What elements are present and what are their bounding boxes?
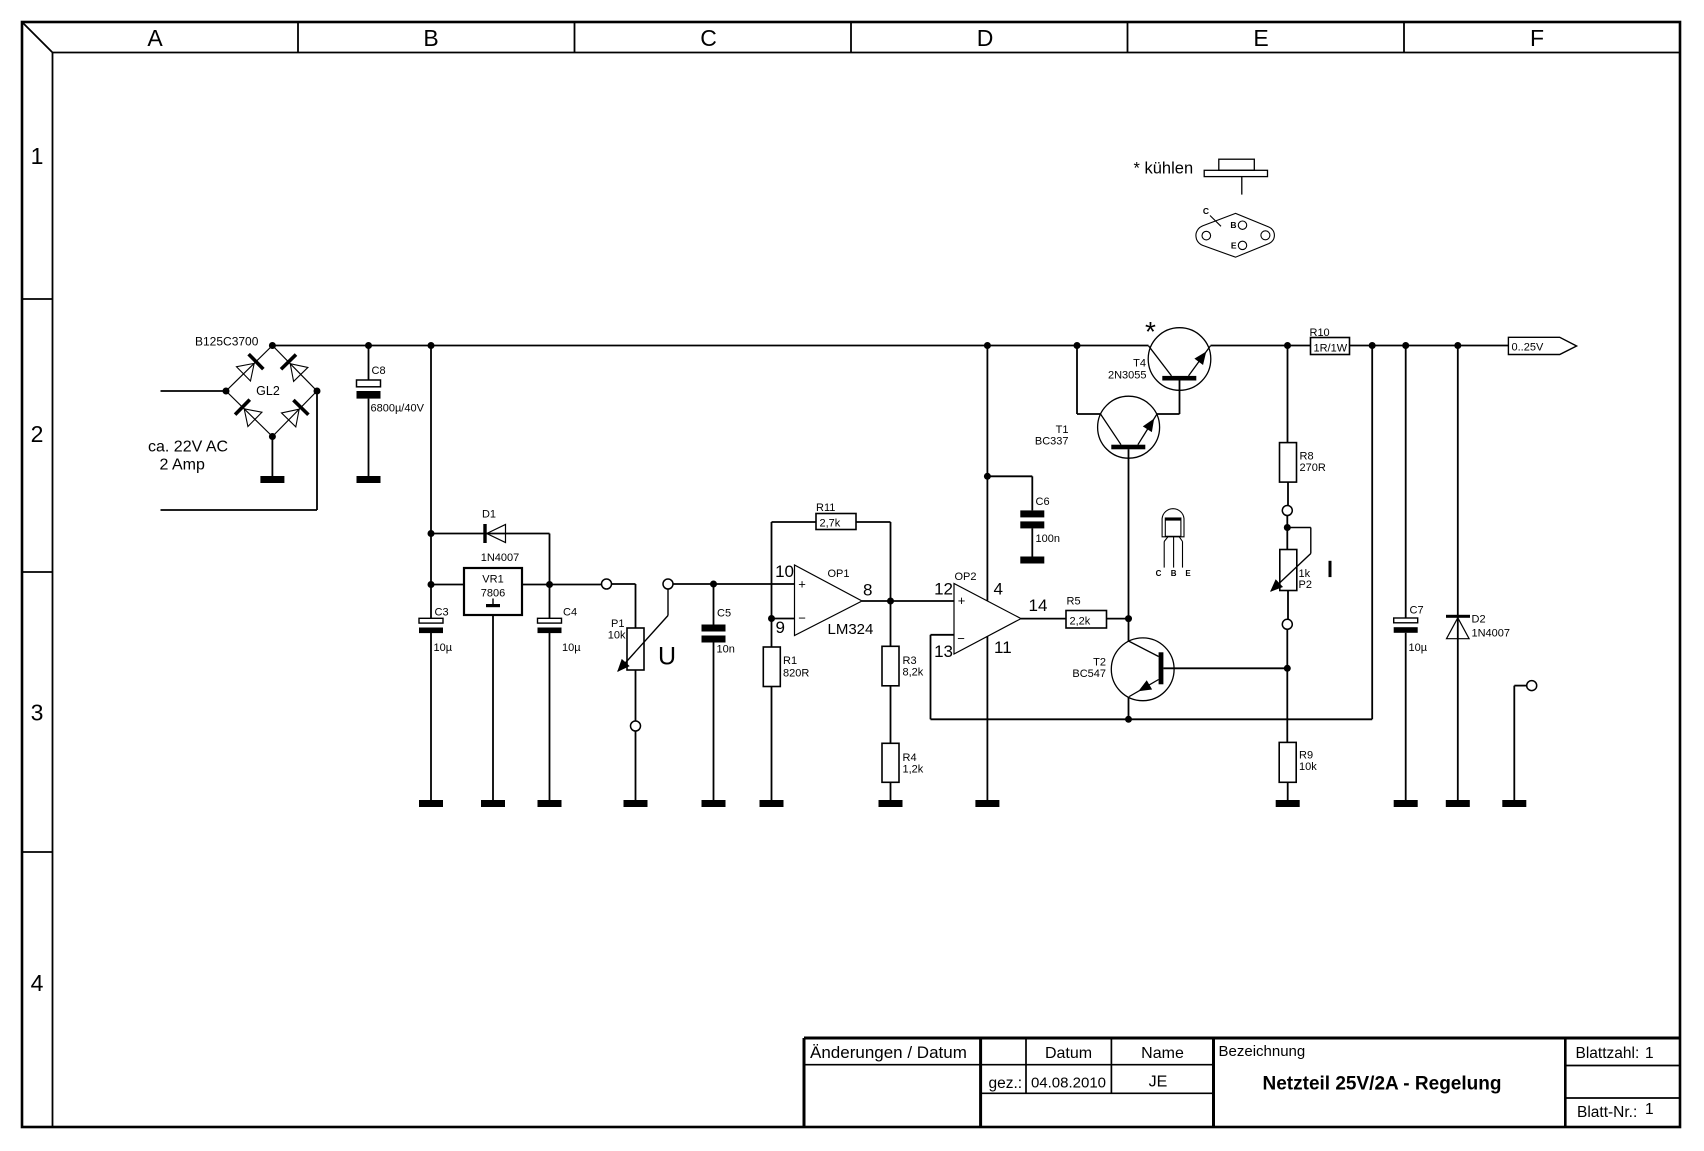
svg-text:*: * [1145, 316, 1156, 347]
svg-text:10k: 10k [1299, 761, 1317, 773]
wire rail to D2 and ground [1457, 346, 1459, 801]
svg-text:C7: C7 [1410, 605, 1424, 617]
svg-text:D1: D1 [482, 509, 496, 521]
wire P1 wiper vertical [667, 589, 669, 616]
wire VR1 input [431, 584, 464, 586]
ground bridge [260, 476, 284, 483]
wire rail to C8 [368, 346, 370, 381]
VR1 ground tab symbol [492, 599, 494, 605]
capacitor C8 [357, 380, 381, 387]
frame row tick [22, 571, 53, 573]
svg-text:C6: C6 [1036, 496, 1050, 508]
frame column tick [1127, 22, 1129, 53]
TO-3 pin E [1238, 241, 1246, 249]
svg-text:Änderungen / Datum: Änderungen / Datum [810, 1043, 967, 1062]
svg-text:R8: R8 [1300, 451, 1314, 463]
resistor R8 [1280, 443, 1297, 483]
svg-text:VR1: VR1 [482, 574, 503, 586]
bridge diode D-BL bar [235, 400, 250, 415]
wire rail T4 to R10 [1211, 345, 1311, 347]
junction rail/R8 [1284, 342, 1291, 349]
svg-text:4: 4 [994, 580, 1003, 599]
heatsink side view pin [1241, 177, 1243, 195]
svg-text:+: + [958, 593, 966, 608]
TO-92 leg B [1173, 537, 1175, 568]
bridge diode D-TR triangle [290, 364, 308, 382]
title block v-line 1 [979, 1038, 982, 1127]
svg-text:T1: T1 [1056, 424, 1069, 436]
junction R5/T1 base/T2 collector [1125, 615, 1132, 622]
svg-text:E: E [1185, 569, 1191, 578]
junction rail/D2 [1454, 342, 1461, 349]
svg-text:Blatt-Nr.:: Blatt-Nr.: [1577, 1104, 1637, 1121]
T1 emitter diagonal [1138, 414, 1157, 445]
title block header row line [804, 1064, 1214, 1066]
T4 base bar [1162, 376, 1196, 381]
ground OP2 pin11 [975, 800, 999, 807]
transistor T1 circle [1098, 396, 1160, 458]
bridge node bottom [269, 433, 276, 440]
TO-92 package drawing [1162, 509, 1184, 537]
bridge node left [223, 388, 230, 395]
wire AC input upper [161, 390, 227, 392]
wire rail to C7 [1405, 346, 1407, 619]
title block datum column line [1110, 1038, 1112, 1093]
wire P2 to R9 [1286, 629, 1288, 742]
wire R1 to ground [771, 687, 773, 801]
svg-text:D: D [977, 25, 994, 51]
ground C3 [419, 800, 443, 807]
svg-text:GL2: GL2 [256, 384, 280, 398]
resistor R10 [1311, 338, 1350, 355]
TO-3 mounting hole right [1261, 231, 1270, 240]
resistor R9 [1279, 742, 1296, 782]
wire C8 to ground [368, 399, 370, 476]
ground P1 [624, 800, 648, 807]
junction OP1 pin9 / R1 / R11 [768, 615, 775, 622]
T2 emitter diagonal [1129, 680, 1158, 697]
wire to R1 [771, 619, 773, 648]
bridge diode D-TR bar [281, 355, 296, 370]
wire C6 top lead [1031, 476, 1033, 510]
junction rail/C8 [365, 342, 372, 349]
svg-text:6800µ/40V: 6800µ/40V [371, 403, 425, 415]
junction rail/C7 [1402, 342, 1409, 349]
svg-text:C8: C8 [372, 365, 386, 377]
svg-text:270R: 270R [1300, 462, 1326, 474]
svg-text:B: B [1171, 569, 1177, 578]
svg-text:C4: C4 [563, 607, 577, 619]
capacitor C4 [538, 618, 562, 623]
ground C6 [1020, 557, 1044, 564]
wire to R11 [772, 521, 817, 523]
TO-3 package bottom view outline [1196, 213, 1275, 257]
wire VR1 gnd lead [492, 615, 494, 800]
svg-text:B125C3700: B125C3700 [195, 335, 259, 349]
T1 collector diagonal [1101, 414, 1122, 445]
wire VR1 output [522, 584, 602, 586]
svg-text:T2: T2 [1093, 657, 1106, 669]
wire D1 down to VR1 output [549, 534, 551, 585]
ground output terminal [1502, 800, 1526, 807]
title block v-line 2 [1212, 1038, 1215, 1127]
svg-text:OP2: OP2 [955, 571, 977, 583]
svg-text:1: 1 [1645, 1045, 1654, 1062]
bridge diode D-TL triangle [236, 363, 254, 381]
capacitor C6 [1020, 510, 1044, 517]
wire OP2 out to R5 [1021, 618, 1066, 620]
op-amp OP2 triangle [954, 584, 1021, 655]
svg-text:14: 14 [1029, 596, 1048, 615]
title block outer [804, 1037, 1680, 1040]
frame row tick [22, 298, 53, 300]
wire T2 base to P2/R9 [1163, 667, 1287, 669]
svg-text:1: 1 [1645, 1101, 1654, 1118]
wire R9 to ground [1287, 782, 1289, 800]
junction P2 wiper [1284, 524, 1291, 531]
label I [1329, 561, 1332, 577]
svg-text:R5: R5 [1067, 596, 1081, 608]
svg-text:8,2k: 8,2k [903, 667, 924, 679]
terminal output minus [1527, 681, 1537, 691]
svg-text:Bezeichnung: Bezeichnung [1219, 1043, 1306, 1060]
TO-92 leg E [1182, 542, 1184, 568]
svg-text:04.08.2010: 04.08.2010 [1031, 1075, 1106, 1092]
junction C5 [710, 581, 717, 588]
wire feedback bottom [931, 718, 1373, 720]
wire rail R10 to output [1350, 345, 1509, 347]
svg-text:C3: C3 [435, 607, 449, 619]
svg-text:A: A [147, 25, 163, 51]
frame column tick [1403, 22, 1405, 53]
wire main rail left of T4 [272, 345, 1148, 347]
bridge diode D-BR bar [293, 400, 308, 415]
wire R5 to T2 collector net [1107, 618, 1129, 620]
wire R11 down to OP1 out [890, 522, 892, 602]
svg-text:−: − [798, 610, 806, 625]
svg-text:1N4007: 1N4007 [1472, 628, 1511, 640]
bridge diode D-BR triangle [282, 409, 300, 427]
junction VR1 input [428, 581, 435, 588]
svg-text:3: 3 [31, 700, 44, 726]
wire wiper jog down [1310, 528, 1312, 554]
ground C7 [1394, 800, 1418, 807]
TO-3 mounting hole left [1202, 231, 1211, 240]
svg-text:Blattzahl:: Blattzahl: [1576, 1045, 1640, 1062]
title block blattzahl row line [1565, 1065, 1680, 1067]
wire R11 right [856, 521, 891, 523]
svg-text:ca. 22V AC: ca. 22V AC [148, 438, 228, 455]
svg-text:E: E [1253, 25, 1268, 51]
svg-text:C: C [1156, 569, 1162, 578]
svg-text:* kühlen: * kühlen [1134, 160, 1194, 178]
svg-text:2,2k: 2,2k [1070, 616, 1091, 628]
svg-text:E: E [1231, 240, 1237, 250]
T1 base bar [1111, 445, 1145, 450]
junction rail/VR1 branch [428, 342, 435, 349]
svg-text:820R: 820R [783, 668, 809, 680]
svg-text:2: 2 [31, 421, 44, 447]
output flag 0..25V [1508, 337, 1576, 354]
svg-text:Name: Name [1141, 1045, 1184, 1062]
svg-text:8: 8 [863, 581, 872, 600]
svg-text:LM324: LM324 [828, 621, 874, 638]
diode D2 triangle [1447, 618, 1470, 639]
wire P1 top lead [635, 584, 637, 628]
capacitor C3 [419, 618, 443, 623]
wire OP2 pin11 to ground [986, 636, 988, 800]
capacitor C5 [702, 625, 726, 632]
ground C5 [702, 800, 726, 807]
wire through D1 [431, 533, 550, 535]
svg-text:10: 10 [775, 562, 794, 581]
wire rail down to C3/VR1 [430, 346, 432, 619]
wire rail to R8 [1287, 346, 1289, 443]
ground R9 [1276, 800, 1300, 807]
wire P2 to terminal bottom [1287, 591, 1289, 620]
svg-text:10µ: 10µ [1409, 642, 1428, 654]
wire C7 to ground [1405, 633, 1407, 800]
wire OP2 pin13 left [931, 634, 955, 636]
svg-text:−: − [957, 631, 965, 646]
T4 collector diagonal [1149, 346, 1172, 376]
svg-text:13: 13 [934, 642, 953, 661]
bridge rectifier GL2 diamond [226, 346, 272, 392]
junction T2 emitter/feedback [1125, 716, 1132, 723]
wire to C6 [987, 475, 1032, 477]
frame column tick [574, 22, 576, 53]
wire C4 to ground [549, 633, 551, 800]
frame column tick [850, 22, 852, 53]
svg-text:JE: JE [1149, 1074, 1168, 1091]
svg-text:10n: 10n [717, 644, 735, 656]
junction rail/OP2 supply [984, 342, 991, 349]
svg-text:C: C [700, 25, 717, 51]
svg-text:100n: 100n [1036, 533, 1060, 545]
svg-text:7806: 7806 [481, 588, 505, 600]
svg-text:2N3055: 2N3055 [1108, 370, 1147, 382]
svg-text:P2: P2 [1299, 579, 1312, 591]
svg-text:BC337: BC337 [1035, 436, 1069, 448]
potentiometer P1 body [627, 628, 644, 670]
TO-3 case pointer line [1210, 216, 1221, 227]
wire R3 to R4 [890, 686, 892, 744]
svg-text:U: U [658, 643, 676, 671]
ground R1 [760, 800, 784, 807]
wire P1 to ground [635, 731, 637, 800]
frame column tick [297, 22, 299, 53]
wire output terminal down [1513, 686, 1515, 800]
resistor R5 [1066, 611, 1107, 629]
svg-text:gez.:: gez.: [989, 1075, 1023, 1092]
diode D1 bar [483, 524, 486, 543]
svg-text:R4: R4 [903, 752, 917, 764]
svg-text:Netzteil 25V/2A - Regelung: Netzteil 25V/2A - Regelung [1263, 1074, 1502, 1095]
svg-text:R3: R3 [903, 655, 917, 667]
wire P1 bottom lead [635, 670, 637, 721]
wire rail to OP2 pin4 [986, 346, 988, 601]
svg-text:C: C [1203, 206, 1209, 216]
svg-text:2 Amp: 2 Amp [160, 456, 205, 473]
wire to T2 collector [1128, 619, 1130, 641]
ground D2 [1446, 800, 1470, 807]
wire AC input lower [161, 509, 318, 511]
TO-92 leg E upper [1179, 537, 1182, 542]
svg-text:4: 4 [31, 970, 44, 996]
svg-text:B: B [1230, 220, 1236, 230]
wire AC lower to bridge right node [316, 391, 318, 510]
wire U set to OP1 + [673, 583, 795, 585]
svg-text:2,7k: 2,7k [820, 518, 841, 530]
terminal I set bottom [1282, 619, 1292, 629]
terminal U set right [663, 579, 673, 589]
svg-text:11: 11 [994, 638, 1012, 657]
junction rail/feedback [1369, 342, 1376, 349]
frame top label band line [53, 52, 1680, 54]
frame corner diagonal [22, 22, 53, 53]
TO-92 leg C upper [1164, 537, 1168, 542]
wire wiper jog right [1287, 527, 1311, 529]
svg-text:T4: T4 [1133, 358, 1146, 370]
T2 collector diagonal [1129, 641, 1159, 657]
bridge node top [269, 342, 276, 349]
ground VR1 [481, 800, 505, 807]
TO-92 leg C [1163, 542, 1165, 568]
wire to OP1 minus [772, 618, 795, 620]
terminal P1 bottom [631, 721, 641, 731]
svg-text:R11: R11 [816, 502, 835, 514]
wire to T1 collector [1077, 413, 1101, 415]
svg-text:BC547: BC547 [1072, 668, 1106, 680]
regulator VR1 box [464, 568, 522, 615]
wire R11 left vertical [771, 522, 773, 619]
wire R8 to terminal [1287, 482, 1289, 506]
svg-text:0..25V: 0..25V [1512, 342, 1544, 354]
wire feedback up to rail [1371, 346, 1373, 720]
frame left label band line [52, 53, 54, 1127]
resistor R1 [763, 647, 780, 687]
transistor T2 circle [1111, 638, 1174, 701]
wire to C5 [713, 584, 715, 625]
capacitor C7 [1394, 618, 1418, 623]
wire T2 emitter down [1128, 697, 1130, 720]
wire T1 emitter to T4 base [1157, 413, 1180, 415]
ground C4 [538, 800, 562, 807]
resistor R3 [882, 646, 899, 686]
wire C5 to ground [713, 643, 715, 801]
svg-text:B: B [423, 25, 438, 51]
junction D1 left [428, 530, 435, 537]
T2 base bar [1159, 652, 1164, 684]
title block gez row line [981, 1092, 1214, 1094]
heatsink side view body [1219, 159, 1255, 170]
bridge diode D-BL triangle [244, 409, 262, 427]
title block gez column line [1025, 1038, 1027, 1093]
wire P1 wiper diagonal [618, 616, 668, 672]
svg-text:C5: C5 [717, 608, 731, 620]
wire to R3 [890, 601, 892, 646]
svg-text:1R/1W: 1R/1W [1314, 343, 1348, 355]
svg-text:10µ: 10µ [562, 642, 581, 654]
wire OP1 out to OP2 + [862, 600, 954, 602]
wire terminal to P1 [611, 583, 635, 585]
potentiometer P2 body [1280, 550, 1297, 591]
junction rail/T1 collector [1074, 342, 1081, 349]
wire C6 bottom lead [1031, 528, 1033, 556]
svg-text:Datum: Datum [1045, 1045, 1092, 1062]
wire C3 to ground [430, 633, 432, 800]
resistor R11 [816, 514, 856, 530]
wire bridge bottom to ground [271, 437, 273, 477]
frame row tick [22, 851, 53, 853]
ground R4 [879, 800, 903, 807]
svg-text:P1: P1 [611, 618, 624, 630]
svg-text:1: 1 [31, 143, 44, 169]
svg-text:R10: R10 [1310, 327, 1330, 339]
wire rail down to T1 [1076, 346, 1078, 415]
wire terminal to P2 [1286, 515, 1288, 549]
T4 emitter diagonal [1189, 346, 1211, 376]
svg-text:R1: R1 [783, 655, 797, 667]
title block blattnr row line [1565, 1097, 1680, 1099]
wire T4 base lead [1179, 381, 1181, 415]
junction VR1 out / C4 / D1 [546, 581, 553, 588]
ground C8 [357, 476, 381, 483]
diode D2 cathode bar [1446, 615, 1470, 618]
svg-text:R9: R9 [1299, 750, 1313, 762]
op-amp OP1 triangle [795, 565, 863, 636]
svg-text:D2: D2 [1472, 614, 1486, 626]
junction OP1 out [887, 598, 894, 605]
resistor R4 [882, 743, 899, 782]
heatsink side view flange [1204, 170, 1267, 176]
junction T2 base [1284, 665, 1291, 672]
wire to C4 [549, 585, 551, 619]
wire pin13 down [930, 635, 932, 720]
wire P2 wiper diagonal [1271, 554, 1311, 592]
diode D1 triangle [487, 524, 506, 542]
svg-text:OP1: OP1 [828, 568, 850, 580]
terminal I set top [1282, 506, 1292, 516]
svg-text:9: 9 [776, 618, 785, 637]
svg-text:12: 12 [934, 580, 953, 599]
transistor T4 circle [1148, 328, 1211, 391]
wire output terminal [1514, 685, 1527, 687]
bridge diode D-TL bar [249, 354, 264, 369]
svg-text:1N4007: 1N4007 [481, 552, 520, 564]
TO-3 pin B [1238, 221, 1246, 229]
svg-text:F: F [1530, 25, 1544, 51]
title block v-line 3 [1564, 1038, 1567, 1127]
svg-text:10µ: 10µ [434, 642, 453, 654]
wire T1 base down [1128, 449, 1130, 618]
bridge node right [314, 388, 321, 395]
svg-text:10k: 10k [608, 630, 626, 642]
junction C6 [984, 473, 991, 480]
wire R4 to ground [890, 782, 892, 800]
svg-text:+: + [798, 576, 806, 591]
terminal U set left [602, 579, 612, 589]
svg-text:1,2k: 1,2k [903, 764, 924, 776]
